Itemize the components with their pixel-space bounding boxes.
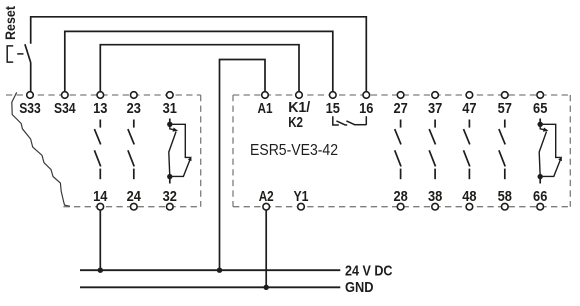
svg-text:K2: K2 (288, 114, 303, 131)
svg-text:47: 47 (462, 100, 476, 117)
svg-text:Reset: Reset (3, 6, 18, 40)
svg-text:65: 65 (533, 100, 548, 117)
svg-text:A2: A2 (259, 188, 274, 205)
svg-text:S34: S34 (54, 100, 76, 117)
svg-text:31: 31 (163, 100, 178, 117)
svg-text:24 V DC: 24 V DC (345, 262, 393, 279)
svg-text:58: 58 (498, 188, 512, 205)
svg-text:38: 38 (428, 188, 442, 205)
svg-text:14: 14 (93, 188, 108, 205)
svg-text:37: 37 (428, 100, 442, 117)
svg-text:24: 24 (127, 188, 142, 205)
svg-text:48: 48 (462, 188, 476, 205)
svg-text:32: 32 (163, 188, 177, 205)
svg-text:S33: S33 (19, 100, 41, 117)
svg-text:13: 13 (93, 100, 107, 117)
svg-text:GND: GND (345, 279, 374, 296)
svg-text:23: 23 (127, 100, 141, 117)
svg-text:27: 27 (393, 100, 407, 117)
svg-text:16: 16 (359, 100, 373, 117)
svg-text:15: 15 (326, 100, 341, 117)
svg-text:66: 66 (533, 188, 547, 205)
svg-text:ESR5-VE3-42: ESR5-VE3-42 (250, 142, 338, 159)
svg-text:57: 57 (498, 100, 512, 117)
svg-text:A1: A1 (258, 100, 273, 117)
svg-text:Y1: Y1 (294, 188, 309, 205)
svg-text:28: 28 (393, 188, 407, 205)
